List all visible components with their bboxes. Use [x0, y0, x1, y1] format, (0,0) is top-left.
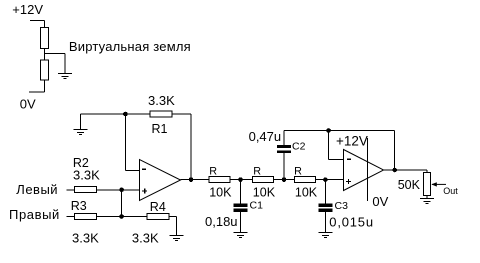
- label: 3.3K (R4): [132, 231, 159, 246]
- wire input tick left: [66, 189, 74, 191]
- op-amp U2 plus pin: [346, 179, 351, 184]
- capacitor C3: [318, 204, 332, 213]
- resistor R3: [74, 213, 96, 219]
- node junction rail to inverting input: [326, 128, 331, 133]
- resistor R third 10K: [295, 177, 316, 183]
- wire C3 top: [324, 180, 326, 204]
- node junction right input: [119, 214, 124, 219]
- label: Out: [443, 186, 458, 196]
- label: 0V (U2): [372, 194, 388, 209]
- label: C2: [292, 141, 306, 153]
- svg-text:0V: 0V: [20, 97, 36, 112]
- svg-text:Правый: Правый: [9, 207, 60, 222]
- resistor R1: [150, 111, 172, 117]
- capacitor C1: [233, 204, 247, 213]
- ground (below C1): [234, 233, 248, 238]
- svg-text:10K: 10K: [253, 185, 276, 199]
- node junction R1 feedback: [123, 112, 128, 117]
- svg-text:R: R: [253, 166, 261, 178]
- capacitor C2: [277, 145, 291, 153]
- label: R (second): [253, 166, 261, 178]
- node junction left input: [119, 188, 124, 193]
- resistor R2: [74, 187, 96, 193]
- label: Виртуальная земля: [69, 39, 191, 54]
- svg-text:+12V: +12V: [12, 2, 43, 17]
- op-amp U1: [140, 160, 181, 201]
- svg-text:R1: R1: [152, 122, 168, 136]
- node junction C2 bottom: [282, 177, 287, 182]
- wire feedback to inverting input: [125, 114, 139, 171]
- wire R3 to R4: [97, 216, 148, 218]
- wire U1 output to ladder: [181, 179, 210, 181]
- ground (virtual ground): [58, 74, 72, 79]
- wire R1 right to output node: [172, 114, 191, 180]
- ground (left of R1): [79, 114, 81, 130]
- wire C1 bottom: [240, 212, 242, 233]
- svg-text:R3: R3: [71, 199, 87, 213]
- wire divider mid junction: [45, 49, 66, 74]
- svg-text:0,015u: 0,015u: [329, 214, 374, 229]
- label: R1: [152, 122, 168, 136]
- svg-text:0,18u: 0,18u: [205, 214, 238, 229]
- label: 0,47u: [249, 129, 282, 144]
- label: Левый: [16, 182, 58, 197]
- label: +12V (U2): [336, 133, 368, 148]
- wire joining inputs vertical: [121, 190, 123, 217]
- svg-text:C3: C3: [335, 200, 349, 212]
- wire U2 output: [384, 170, 428, 173]
- ground bars (left of R1): [73, 130, 87, 135]
- resistor R second 10K: [252, 177, 273, 183]
- potentiometer 50K body: [423, 173, 430, 196]
- svg-text:10K: 10K: [209, 185, 232, 199]
- label: 0V: [20, 97, 36, 112]
- wire rail to U2 inverting input: [329, 131, 344, 160]
- svg-text:Out: Out: [443, 186, 458, 196]
- svg-text:3.3K: 3.3K: [72, 231, 99, 246]
- label: R (third): [294, 166, 302, 178]
- resistor R first 10K: [209, 177, 230, 183]
- wire pot to ground: [426, 196, 428, 199]
- label: 10K (second): [253, 185, 276, 199]
- label: C3: [335, 200, 349, 212]
- op-amp U1 minus pin: [142, 168, 146, 170]
- svg-text:R4: R4: [150, 200, 166, 214]
- ground (below C3): [318, 233, 332, 238]
- label: 50K: [398, 178, 421, 192]
- wire C1 top: [240, 180, 242, 204]
- wire from +12V to divider top: [30, 21, 45, 28]
- label: Правый: [9, 207, 60, 222]
- svg-text:50K: 50K: [398, 178, 421, 192]
- op-amp U2 supply rail line: [367, 138, 369, 201]
- label: 3.3K (R3): [72, 231, 99, 246]
- label: 10K (third): [295, 185, 318, 199]
- svg-text:3.3K: 3.3K: [148, 93, 175, 108]
- label: 0,015u: [329, 214, 374, 229]
- label: 3.3K (R1): [148, 93, 175, 108]
- wire divider bottom to 0V: [29, 80, 45, 92]
- resistor divider bottom: [41, 60, 49, 80]
- wire ladder to U2 plus input: [316, 179, 344, 181]
- label: +12V supply: [12, 2, 43, 17]
- label: R2: [73, 156, 89, 170]
- wire C2 top feedback rail: [284, 131, 395, 171]
- wire input tick right channel: [66, 216, 74, 218]
- wire R4 to ground: [169, 217, 176, 236]
- svg-text:R: R: [209, 166, 217, 178]
- wire C2 bottom lead: [283, 153, 285, 180]
- resistor divider top: [41, 28, 49, 49]
- wire R1 row left: [81, 113, 151, 115]
- op-amp U2 minus pin: [347, 158, 351, 160]
- svg-text:C1: C1: [250, 199, 264, 211]
- node junction C1: [238, 177, 243, 182]
- wire R2 to plus input: [97, 189, 140, 191]
- resistor R4: [147, 213, 169, 219]
- node junction U2 output: [392, 168, 397, 173]
- svg-text:Виртуальная земля: Виртуальная земля: [69, 39, 191, 54]
- potentiometer wiper arrow: [431, 182, 446, 186]
- label: 3.3K (R2): [73, 168, 100, 183]
- label: R3: [71, 199, 87, 213]
- svg-text:+12V: +12V: [336, 133, 368, 148]
- svg-text:Левый: Левый: [16, 182, 58, 197]
- label: R (first): [209, 166, 217, 178]
- svg-text:0V: 0V: [372, 194, 388, 209]
- node junction op-amp U1 output: [189, 177, 194, 182]
- label: 10K (first): [209, 185, 232, 199]
- svg-text:3.3K: 3.3K: [132, 231, 159, 246]
- label: 0,18u: [205, 214, 238, 229]
- svg-text:C2: C2: [292, 141, 306, 153]
- ground (below potentiometer): [420, 199, 434, 204]
- label: R4: [150, 200, 166, 214]
- wire ladder seg1: [230, 179, 252, 181]
- op-amp U1 plus pin: [142, 188, 147, 193]
- svg-text:10K: 10K: [295, 185, 318, 199]
- op-amp U2: [344, 150, 384, 191]
- svg-text:R: R: [294, 166, 302, 178]
- svg-text:3.3K: 3.3K: [73, 168, 100, 183]
- wire ladder seg2: [273, 179, 294, 181]
- wire C3 bottom: [324, 212, 326, 233]
- label: C1: [250, 199, 264, 211]
- node junction C3: [323, 177, 328, 182]
- ground (below R4): [169, 236, 183, 241]
- svg-text:0,47u: 0,47u: [249, 129, 282, 144]
